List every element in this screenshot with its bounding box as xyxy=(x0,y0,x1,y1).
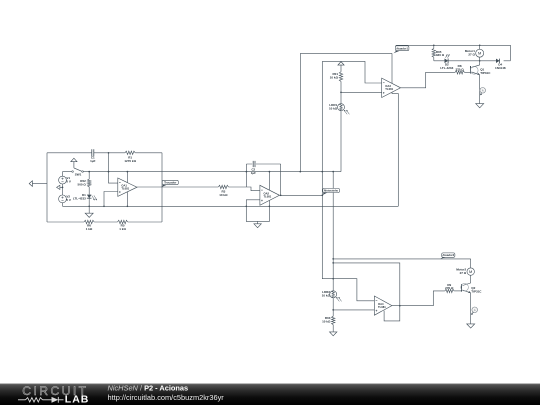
svg-text:1 kΩ: 1 kΩ xyxy=(119,227,126,231)
svg-text:NicHSeN / P2 - Acionas: NicHSeN / P2 - Acionas xyxy=(108,384,189,393)
svg-text:Motorzinho: Motorzinho xyxy=(324,188,338,192)
svg-text:27 Ω: 27 Ω xyxy=(460,271,467,275)
svg-text:1270 kΩ: 1270 kΩ xyxy=(124,159,136,163)
svg-text:Atuador2: Atuador2 xyxy=(442,253,454,257)
wire ground rail Y4 xyxy=(63,205,399,207)
svg-text:TL081: TL081 xyxy=(264,195,272,199)
wire minus rail Y1 xyxy=(63,171,342,173)
capacitor C2 xyxy=(253,161,255,167)
CircuitLab logo wire glyph xyxy=(18,399,26,401)
resistor R01 xyxy=(339,72,342,82)
resistor R9 xyxy=(445,289,454,292)
wire OA2 plus network xyxy=(246,172,269,222)
ground (Q1 emitter) xyxy=(476,104,484,108)
node flag between sources xyxy=(62,184,64,195)
op-amp OA1 xyxy=(118,178,137,196)
svg-text:Trocador: Trocador xyxy=(164,181,177,185)
wire OA1 plus input xyxy=(104,192,118,207)
wire OA1 output xyxy=(137,186,246,188)
flag Motorzinho (OA2 output) xyxy=(322,192,328,195)
wire flag drop behind OA3 xyxy=(392,53,398,206)
capacitor C1 xyxy=(92,149,94,156)
footer bar xyxy=(0,384,540,405)
svg-text:27 Ω: 27 Ω xyxy=(468,53,475,57)
motor Motor2 xyxy=(470,259,472,268)
wire OA2 minus vertical xyxy=(245,164,247,187)
svg-text:500 Ω: 500 Ω xyxy=(78,182,87,186)
wire OA4 feedback rail xyxy=(333,263,400,321)
port arrow node IN xyxy=(32,183,47,185)
svg-text:LTL-4233: LTL-4233 xyxy=(440,66,453,70)
wire OA1 minus input xyxy=(109,172,118,184)
wire node-A vertical left xyxy=(299,53,301,171)
wire top feedback (left block) xyxy=(47,152,125,154)
svg-text:M: M xyxy=(469,269,472,274)
ground (Q2 emitter) xyxy=(467,324,475,328)
svg-text:10 kΩ: 10 kΩ xyxy=(219,193,228,197)
wire OA3 output to base xyxy=(401,72,456,88)
svg-text:TIP31C: TIP31C xyxy=(471,289,482,293)
op-amp OA2 xyxy=(260,185,280,205)
resistor R3 xyxy=(218,185,228,188)
svg-text:TIP31C: TIP31C xyxy=(480,71,491,75)
photoresistor LDR2 xyxy=(330,291,337,298)
transistor Q1 xyxy=(472,65,480,68)
svg-text:10 kΩ: 10 kΩ xyxy=(322,293,331,297)
svg-text:1μF: 1μF xyxy=(251,171,256,175)
wire Q1 emitter xyxy=(479,75,481,104)
wire OA3 plus input xyxy=(341,91,382,93)
svg-text:1μF: 1μF xyxy=(90,159,96,163)
svg-text:10 kΩ: 10 kΩ xyxy=(329,106,338,110)
current probe P1 xyxy=(480,88,486,94)
svg-text:5 V: 5 V xyxy=(66,198,71,202)
svg-text:A: A xyxy=(474,308,476,312)
current probe P2 xyxy=(472,307,478,313)
svg-text:TL081: TL081 xyxy=(385,87,393,91)
ground (OA2 block) xyxy=(257,221,259,223)
resistor R6 xyxy=(84,220,94,223)
resistor R05 xyxy=(433,45,435,48)
motor Motor1 xyxy=(479,45,481,49)
svg-text:330 Ω: 330 Ω xyxy=(436,53,445,57)
op-amp OA3 xyxy=(382,78,401,97)
node junction C1/R1 to minus rail xyxy=(108,153,110,172)
svg-text:LTL-4233: LTL-4233 xyxy=(73,196,86,200)
resistor R02 xyxy=(88,172,90,180)
switch SW1 xyxy=(71,158,77,162)
svg-text:TL081: TL081 xyxy=(121,187,129,191)
voltage source V2 xyxy=(59,195,67,203)
supply flag above R01 xyxy=(338,62,344,66)
svg-text:1N4148: 1N4148 xyxy=(495,66,506,70)
svg-text:270 Ω: 270 Ω xyxy=(445,286,454,290)
wire minus-rail drop to LDR2 xyxy=(332,172,334,291)
svg-text:TL081: TL081 xyxy=(378,305,386,309)
wire crossing under OA1 xyxy=(126,172,128,207)
svg-text:SW1: SW1 xyxy=(75,173,82,177)
wire Q2 emitter xyxy=(470,293,472,324)
flag Atuador2 xyxy=(440,257,447,259)
photoresistor LDR1 xyxy=(338,104,345,111)
wire OA4 plus input xyxy=(333,309,374,311)
op-amp OA4 xyxy=(374,296,392,315)
svg-text:http://circuitlab.com/c5buzm2k: http://circuitlab.com/c5buzm2kr36yr xyxy=(108,393,225,402)
flag Atuador1 xyxy=(394,51,401,54)
svg-text:Atuador1: Atuador1 xyxy=(396,47,408,51)
ground (R03) xyxy=(330,332,337,336)
resistor R03 xyxy=(332,310,334,316)
voltage source V1 xyxy=(62,172,64,177)
svg-text:M: M xyxy=(478,51,481,56)
wire OA2 feedback top xyxy=(246,163,280,165)
svg-text:10 kΩ: 10 kΩ xyxy=(322,319,331,323)
diode D4 xyxy=(496,59,500,63)
resistor R5 xyxy=(118,220,128,223)
svg-text:A: A xyxy=(482,88,484,92)
wire motor2 top rail xyxy=(333,258,471,260)
svg-text:1 kΩ: 1 kΩ xyxy=(86,227,93,231)
wire left vertical xyxy=(46,153,48,222)
wire motor1 top rail xyxy=(396,45,511,61)
resistor R1 xyxy=(125,151,135,154)
wire OA2-out long vertical xyxy=(322,61,374,300)
wire right vertical (OA1 feedback node) xyxy=(161,153,163,222)
wire bottom (left block) xyxy=(47,221,84,223)
resistor R8 xyxy=(455,71,464,74)
svg-text:270 Ω: 270 Ω xyxy=(455,68,464,72)
LED D2 xyxy=(445,59,449,64)
wire motor1 bottom rail xyxy=(434,60,511,62)
wire node-A horizontal xyxy=(300,52,392,54)
wire OA2 output xyxy=(280,194,323,196)
wire OA3 minus input xyxy=(322,61,381,83)
svg-text:LAB: LAB xyxy=(65,394,90,405)
wire OA2 feedback vertical xyxy=(280,164,282,195)
svg-text:10 kΩ: 10 kΩ xyxy=(330,75,339,79)
wire OA4 output xyxy=(392,291,445,306)
svg-text:5 V: 5 V xyxy=(66,179,71,183)
wire OA2 minus jog xyxy=(246,187,260,191)
flag Trocador (OA1 output) xyxy=(161,185,167,188)
transistor Q2 xyxy=(463,283,471,286)
LED D1 xyxy=(87,195,92,199)
ground (left block) xyxy=(88,206,90,213)
